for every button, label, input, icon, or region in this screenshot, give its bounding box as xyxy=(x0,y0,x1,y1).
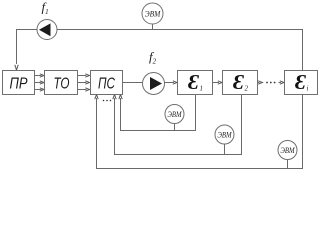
arrowhead up into PS from E2 loop xyxy=(113,95,116,100)
wire stem EVM4 xyxy=(287,160,289,169)
arrowhead up into PS from E1 loop xyxy=(119,95,122,100)
block Ei evaporator xyxy=(285,70,318,95)
wire PR-TO triple xyxy=(35,76,42,90)
pump P2 (feed line) xyxy=(143,73,165,95)
wire feedback top: Ei top to pump1 to PR xyxy=(17,30,303,71)
wire TO-PS triple xyxy=(78,76,87,90)
arrowhead up into PS from Ei loop xyxy=(95,95,98,100)
dots ellipsis under PS xyxy=(103,100,112,102)
svg-text:ЭВМ: ЭВМ xyxy=(281,146,296,155)
block PS xyxy=(91,71,123,95)
computer EVM1 (top) xyxy=(142,3,163,24)
block TO xyxy=(45,71,78,95)
svg-text:ПС: ПС xyxy=(98,76,115,93)
pump P1 (fan, feedback line) xyxy=(37,20,57,40)
block E1 evaporator xyxy=(178,70,213,95)
svg-text:ТО: ТО xyxy=(54,76,70,93)
svg-text:ЭВМ: ЭВМ xyxy=(168,110,183,119)
arrowheads TO-PS xyxy=(85,74,89,77)
wire E2 down loop xyxy=(115,95,242,155)
arrowhead pump2-E1 xyxy=(173,81,177,84)
computer EVM4 (on Ei loop) xyxy=(278,141,297,160)
wire pump2 to E1 xyxy=(165,82,175,84)
block PR xyxy=(3,71,35,95)
svg-text:ПР: ПР xyxy=(10,76,28,93)
wire E1 down loop xyxy=(121,95,196,131)
block E2 evaporator xyxy=(223,70,258,95)
svg-text:2: 2 xyxy=(245,85,249,93)
arrowheads PR-TO xyxy=(40,74,44,77)
arrowhead E2-dots xyxy=(258,81,262,84)
wire Ei down loop xyxy=(97,95,303,169)
wire PS to pump2 xyxy=(123,82,143,84)
svg-text:ЭВМ: ЭВМ xyxy=(218,131,233,140)
dots ellipsis between E2 and Ei xyxy=(266,82,275,84)
wire E1-E2 xyxy=(213,82,220,84)
svg-text:1: 1 xyxy=(200,85,204,93)
wire stem EVM3 xyxy=(224,144,226,155)
svg-text:Ɛ: Ɛ xyxy=(233,70,245,94)
arrowhead dots-Ei xyxy=(280,81,284,84)
svg-text:ЭВМ: ЭВМ xyxy=(145,10,162,19)
svg-text:i: i xyxy=(307,85,309,93)
svg-text:Ɛ: Ɛ xyxy=(188,70,200,94)
arrowhead E1-E2 xyxy=(218,81,222,84)
wire stem EVM1 xyxy=(152,24,154,30)
computer EVM2 (on E1 loop) xyxy=(165,105,184,124)
wire stem EVM2 xyxy=(174,124,176,131)
svg-text:Ɛ: Ɛ xyxy=(295,70,307,94)
wire dots to Ei xyxy=(279,82,282,84)
arrowhead into PR top xyxy=(15,65,18,70)
wire E2 to dots xyxy=(258,82,260,84)
computer EVM3 (on E2 loop) xyxy=(215,125,234,144)
